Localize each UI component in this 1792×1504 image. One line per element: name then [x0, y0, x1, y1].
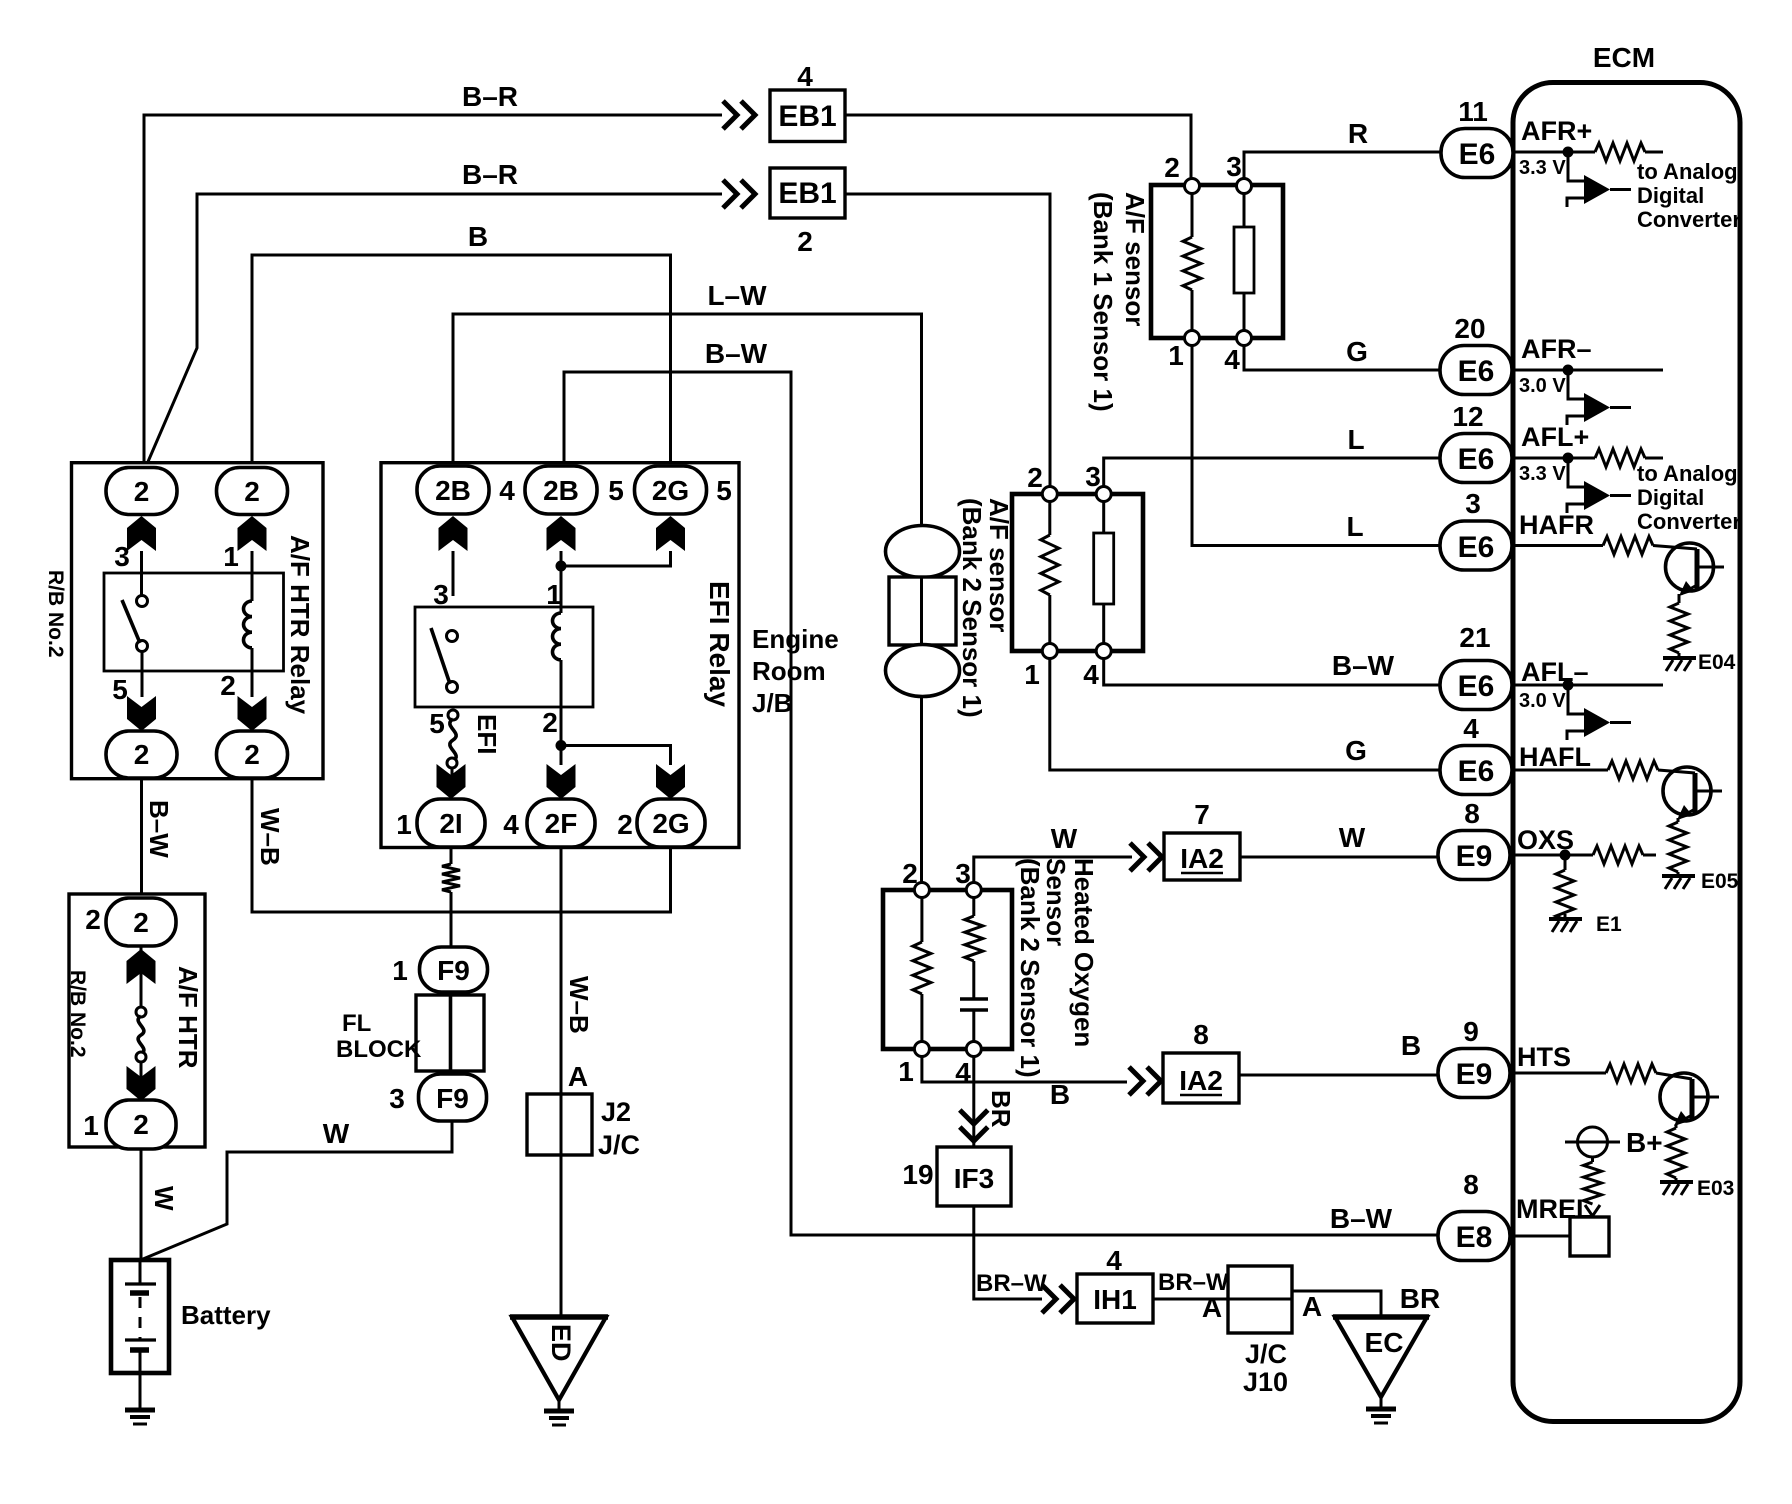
E04 resistor: [1670, 603, 1688, 653]
svg-text:(Bank 2 Sensor 1): (Bank 2 Sensor 1): [1015, 858, 1045, 1078]
connector EB1 (pin 2): [770, 168, 845, 218]
pin oval 2B (pin 5): [525, 466, 597, 514]
HO2S element resistor: [972, 897, 975, 916]
HO2S connector wire through: [920, 577, 923, 645]
connector E6 pin 20: [1440, 346, 1512, 395]
AFR+ amp input jog: [1568, 152, 1584, 181]
pin arrow down: [127, 1066, 156, 1101]
bank2 heater resistor: [1048, 501, 1051, 644]
svg-text:E6: E6: [1458, 443, 1495, 476]
svg-text:B: B: [468, 221, 488, 252]
junction dot: [1560, 850, 1571, 861]
svg-text:EFI Relay: EFI Relay: [704, 581, 735, 707]
svg-text:Converter: Converter: [1637, 509, 1741, 534]
svg-text:2: 2: [902, 858, 918, 889]
wire BR-W from IF3 to IH1: [974, 1206, 1042, 1299]
svg-text:BR: BR: [986, 1090, 1016, 1128]
connector EB1 (pin 4): [770, 90, 845, 142]
HTS resistor: [1606, 1064, 1656, 1082]
svg-text:2G: 2G: [652, 475, 689, 506]
svg-text:E05: E05: [1701, 870, 1739, 893]
OXS stub: [1643, 854, 1656, 857]
svg-text:to Analog: to Analog: [1637, 159, 1738, 184]
svg-text:5: 5: [429, 708, 445, 739]
node 4: [1096, 644, 1111, 659]
svg-text:L: L: [1346, 511, 1363, 542]
svg-text:E03: E03: [1697, 1177, 1734, 1200]
EFI fuse wiggle: [450, 719, 456, 761]
Q2 emitter wire: [1677, 818, 1680, 822]
svg-text:4: 4: [797, 61, 813, 92]
svg-text:(Bank 1 Sensor 1): (Bank 1 Sensor 1): [1088, 192, 1118, 412]
junction dot: [1563, 453, 1574, 464]
wire BR from HO2S pin4 down to IF3: [972, 1056, 975, 1147]
svg-text:BR: BR: [1400, 1283, 1440, 1314]
svg-text:E6: E6: [1458, 755, 1495, 788]
HO2S capacitor plate 1: [960, 997, 988, 1001]
AFL+ amp input jog: [1568, 458, 1584, 487]
svg-text:J/B: J/B: [752, 688, 792, 718]
svg-text:EB1: EB1: [778, 177, 836, 210]
wire connector to HO2S sensor: [920, 696, 923, 883]
svg-text:19: 19: [902, 1159, 933, 1190]
svg-text:A/F sensor: A/F sensor: [1120, 192, 1150, 326]
connector arrows to IH1(4): [1042, 1285, 1074, 1313]
svg-text:AFL–: AFL–: [1521, 657, 1589, 687]
battery plate short top: [130, 1290, 149, 1296]
svg-text:2: 2: [617, 809, 633, 840]
wire: [450, 892, 453, 948]
svg-text:2: 2: [542, 707, 558, 738]
node 1: [914, 1042, 929, 1057]
chassis ground E05: [1662, 876, 1695, 889]
wire to E04 ground: [1678, 653, 1681, 657]
svg-text:W–B: W–B: [564, 976, 594, 1034]
MREL internal wire: [1510, 1235, 1570, 1238]
svg-text:B–W: B–W: [1332, 650, 1395, 681]
svg-text:FL: FL: [342, 1010, 371, 1037]
chassis ground E04: [1663, 658, 1696, 671]
svg-text:2: 2: [244, 739, 260, 770]
junction connector J/C J10: [1228, 1266, 1292, 1333]
relay box A/F HTR Relay (R/B No.2): [72, 463, 324, 779]
connector arrows to EB1(2): [723, 180, 755, 208]
wire W from IA2 to E9 pin 8: [1240, 856, 1444, 859]
relay coil: [553, 613, 562, 660]
connector IF3 (pin 19): [937, 1147, 1011, 1206]
wire coil to junction: [560, 660, 563, 746]
svg-text:2F: 2F: [545, 808, 578, 839]
bank2 element resistor wire: [1102, 501, 1105, 644]
pin oval 2I (pin 1): [417, 799, 485, 847]
svg-text:1: 1: [392, 955, 408, 986]
connector IA2 (pin 8): [1163, 1053, 1239, 1103]
svg-text:R/B No.2: R/B No.2: [66, 970, 89, 1058]
bank2 element resistor box: [1094, 533, 1114, 604]
svg-text:12: 12: [1452, 401, 1483, 432]
svg-text:AFL+: AFL+: [1521, 422, 1589, 452]
wire W from HO2S pin3 to IA2(7): [974, 857, 1132, 883]
pin arrow down 2G: [656, 764, 685, 799]
svg-text:1: 1: [546, 579, 562, 610]
svg-text:3: 3: [955, 858, 971, 889]
svg-text:1: 1: [83, 1110, 99, 1141]
svg-text:A/F sensor: A/F sensor: [984, 498, 1014, 632]
A/F sensor Bank 2 box: [1012, 494, 1143, 651]
HAFL resistor: [1608, 761, 1658, 779]
fuse contact top: [136, 1007, 146, 1017]
svg-text:21: 21: [1459, 622, 1490, 653]
battery ground: [125, 1410, 155, 1424]
fuse contact bottom: [136, 1052, 146, 1062]
wire W-B from relay pin 2 to EFI relay 2G(2) bottom: [252, 778, 671, 912]
AFR+ internal wire: [1513, 151, 1595, 154]
connector E6 pin 3: [1440, 521, 1512, 570]
svg-text:2: 2: [244, 476, 260, 507]
svg-text:E6: E6: [1458, 355, 1495, 388]
svg-text:W: W: [149, 1186, 179, 1211]
fuse F9 (pin 1): [420, 947, 488, 992]
wire B from HO2S pin1 to IA2(8): [922, 1056, 1127, 1082]
svg-text:Converter: Converter: [1637, 207, 1741, 232]
svg-text:1: 1: [1168, 340, 1184, 371]
pin oval 2B (pin 4): [417, 466, 489, 514]
svg-text:L: L: [1347, 424, 1364, 455]
pin arrow up (right): [238, 516, 267, 551]
svg-text:A: A: [568, 1061, 588, 1092]
junction box A/F HTR (R/B No.2): [69, 894, 205, 1147]
node 2: [1042, 487, 1057, 502]
pin oval 2 (top): [106, 898, 176, 946]
chassis ground E03: [1660, 1182, 1693, 1195]
svg-text:8: 8: [1464, 798, 1480, 829]
AFR- amp lower input: [1567, 416, 1584, 425]
svg-text:G: G: [1345, 735, 1367, 766]
Q3 emitter wire: [1675, 1124, 1678, 1128]
svg-text:IA2: IA2: [1180, 843, 1224, 874]
svg-text:EFI: EFI: [472, 714, 502, 754]
HO2S connector grommet top: [886, 526, 960, 578]
svg-text:E1: E1: [1596, 913, 1622, 936]
node 1: [1185, 331, 1200, 346]
svg-text:B: B: [1050, 1079, 1070, 1110]
HAFL wire to transistor: [1658, 770, 1695, 773]
svg-text:W–B: W–B: [255, 808, 285, 866]
op-amp AFL-: [1584, 708, 1610, 737]
svg-text:Engine: Engine: [752, 624, 839, 654]
node 3: [1096, 487, 1111, 502]
wire EB1(4) to A/F sensor bank1 pin 2: [845, 115, 1191, 180]
svg-text:HAFL: HAFL: [1519, 742, 1591, 772]
Q1 emitter wire: [1678, 594, 1681, 603]
wire J2 to ED ground: [560, 1155, 563, 1318]
svg-text:ECM: ECM: [1593, 42, 1655, 73]
svg-text:3: 3: [1465, 488, 1481, 519]
wire B-R to EB1(4) from A/F HTR relay pin 2: [144, 115, 722, 467]
node 2: [1185, 179, 1200, 194]
svg-text:B–W: B–W: [144, 800, 174, 858]
wire R from bank1 pin3 to E6 pin 11: [1244, 152, 1444, 180]
connector arrows to IA2(8): [1129, 1067, 1161, 1095]
AFL+ internal wire: [1513, 457, 1595, 460]
svg-text:F9: F9: [437, 955, 470, 986]
svg-text:to Analog: to Analog: [1637, 461, 1738, 486]
E1 resistor: [1556, 870, 1574, 920]
wire pin3 to switch: [140, 551, 143, 596]
svg-text:2I: 2I: [439, 808, 462, 839]
svg-text:W: W: [323, 1118, 350, 1149]
fusible link wiggle: [138, 1016, 144, 1054]
svg-text:1: 1: [1024, 659, 1040, 690]
battery internal top wire: [139, 1260, 142, 1284]
svg-text:2B: 2B: [435, 475, 471, 506]
junction dot: [1563, 147, 1574, 158]
battery plate long top: [125, 1282, 156, 1285]
AFR- amp output: [1610, 406, 1631, 409]
EC earth ground: [1366, 1409, 1396, 1423]
connector arrows to IA2(7): [1130, 843, 1162, 871]
pin oval 2 (top-right, pin 1): [217, 468, 288, 515]
junction dot on coil wire: [556, 740, 567, 751]
svg-text:4: 4: [1224, 344, 1240, 375]
ground triangle ED: [512, 1317, 606, 1400]
wire 2B5 to coil with branch to 2G5: [560, 551, 563, 613]
fusible link zigzag under 2I: [442, 864, 460, 892]
AFL+ amp lower input: [1567, 504, 1584, 513]
svg-text:E6: E6: [1458, 531, 1495, 564]
AFR- amp input jog: [1568, 370, 1584, 399]
wire battery to ground: [139, 1373, 142, 1408]
svg-text:Digital: Digital: [1637, 485, 1704, 510]
switch contact top: [447, 631, 458, 642]
pin arrow up: [127, 949, 156, 984]
switch blade: [431, 628, 450, 684]
svg-text:20: 20: [1454, 313, 1485, 344]
HAFR internal wire: [1513, 544, 1603, 547]
svg-text:J10: J10: [1243, 1367, 1288, 1397]
svg-text:J/C: J/C: [598, 1130, 640, 1160]
svg-text:9: 9: [1463, 1016, 1479, 1047]
wire coil to pin 2: [251, 648, 254, 697]
wire B from A/F HTR relay pin 1 to EFI relay 2G top: [252, 255, 671, 467]
chassis ground E1: [1549, 919, 1582, 932]
svg-text:B–W: B–W: [1330, 1203, 1393, 1234]
wire L-W from EFI relay 2B(4) to HO2S connector: [453, 314, 922, 528]
switch contact bottom: [447, 682, 458, 693]
connector arrows down to IF3: [960, 1110, 988, 1141]
pin arrow down 2F: [547, 764, 576, 799]
wire B-W from EFI relay 2B(5) to ECM E8 MREL: [564, 372, 1440, 1235]
EFI fuse contact bottom: [447, 758, 457, 768]
pin oval 2G (pin 5): [635, 466, 707, 514]
wire switch to pin 5: [141, 651, 144, 697]
svg-text:A: A: [1302, 1291, 1322, 1322]
E03 resistor: [1667, 1128, 1685, 1178]
switch contact bottom: [137, 641, 148, 652]
junction dot: [1563, 365, 1574, 376]
svg-text:2: 2: [134, 739, 150, 770]
wire 2I to F9(1) with fusible zigzag: [450, 849, 453, 864]
svg-text:F9: F9: [436, 1083, 469, 1114]
svg-text:AFR–: AFR–: [1521, 334, 1592, 364]
svg-text:W: W: [1051, 823, 1078, 854]
relay coil: [244, 601, 253, 648]
battery internal bottom wire: [139, 1350, 142, 1373]
wire EB1(2) to A/F sensor bank2 pin 2: [845, 194, 1050, 488]
svg-text:3.3 V: 3.3 V: [1519, 463, 1566, 485]
pin arrow down (right): [238, 696, 267, 731]
bank1 element resistor box: [1234, 227, 1254, 293]
AFL+ stub: [1645, 457, 1663, 460]
svg-text:R: R: [1348, 118, 1368, 149]
OXS resistor: [1593, 846, 1643, 864]
svg-text:2: 2: [134, 476, 150, 507]
svg-text:2: 2: [133, 907, 149, 938]
connector E6 pin 21: [1440, 661, 1512, 710]
wire W from A/F HTR to battery: [140, 1149, 143, 1262]
svg-text:E8: E8: [1456, 1221, 1493, 1254]
svg-text:5: 5: [608, 475, 624, 506]
transistor Q3 (HTS driver): [1660, 1073, 1708, 1121]
svg-text:L–W: L–W: [707, 280, 767, 311]
wire pin1 to coil: [251, 551, 254, 601]
ground triangle EC: [1335, 1317, 1427, 1397]
svg-text:J/C: J/C: [1245, 1339, 1287, 1369]
wire 2B4 to switch: [452, 551, 455, 596]
svg-text:1: 1: [223, 541, 239, 572]
svg-text:BR–W: BR–W: [976, 1270, 1047, 1297]
svg-text:IF3: IF3: [954, 1163, 994, 1194]
svg-text:BLOCK: BLOCK: [336, 1036, 422, 1063]
J2 wire through: [560, 1094, 563, 1155]
svg-text:1: 1: [898, 1056, 914, 1087]
svg-text:4: 4: [1106, 1245, 1122, 1276]
wire to E1 ground: [1564, 914, 1567, 918]
AFR+ amp lower input: [1567, 198, 1584, 207]
svg-text:E6: E6: [1458, 670, 1495, 703]
FL BLOCK: [416, 995, 484, 1071]
svg-text:3: 3: [433, 579, 449, 610]
svg-text:E6: E6: [1459, 138, 1496, 171]
HTS wire to transistor: [1656, 1073, 1692, 1079]
ECM box: [1513, 83, 1740, 1422]
svg-text:2: 2: [1164, 152, 1180, 183]
MREL coil square: [1570, 1217, 1609, 1256]
A/F sensor Bank 1 box: [1151, 185, 1283, 338]
connector E6 pin 4: [1440, 746, 1512, 795]
svg-text:EC: EC: [1365, 1327, 1404, 1358]
pin oval 2F (pin 4): [527, 799, 595, 847]
wire to E03 ground: [1675, 1178, 1678, 1181]
svg-text:7: 7: [1194, 799, 1210, 830]
wire junction to 2F arrow: [560, 746, 563, 766]
AFL+ resistor: [1595, 449, 1645, 467]
B+ terminal bar: [1565, 1141, 1620, 1144]
E05 resistor: [1669, 822, 1687, 872]
pin arrow up 2B4: [439, 516, 468, 551]
node 4: [1237, 331, 1252, 346]
svg-text:2: 2: [133, 1109, 149, 1140]
connector IH1 (pin 4): [1077, 1274, 1153, 1323]
node 1: [1042, 644, 1057, 659]
wire B from IA2 to E9 pin 9: [1239, 1074, 1444, 1077]
AFL+ amp output: [1610, 494, 1631, 497]
svg-text:3: 3: [1226, 151, 1242, 182]
HO2S connector grommet bottom: [886, 645, 960, 697]
node 2: [914, 883, 929, 898]
svg-text:B+: B+: [1626, 1127, 1663, 1158]
wire G from bank1 pin4 to E6 pin 20: [1244, 344, 1444, 370]
transistor Q1 (HAFR driver): [1666, 543, 1714, 591]
svg-text:MREL: MREL: [1516, 1194, 1593, 1224]
J10 divider: [1228, 1298, 1292, 1301]
op-amp AFR-: [1584, 393, 1610, 422]
connector E6 pin 12: [1440, 434, 1512, 483]
ED earth ground: [544, 1411, 574, 1425]
pin arrow down (left): [127, 696, 156, 731]
svg-text:E9: E9: [1456, 840, 1493, 873]
op-amp AFL+: [1584, 481, 1610, 510]
branch wire to 2G2: [561, 746, 671, 766]
svg-text:AFR+: AFR+: [1521, 116, 1592, 146]
svg-text:2B: 2B: [543, 475, 579, 506]
svg-text:Digital: Digital: [1637, 183, 1704, 208]
HAFR wire to transistor: [1653, 546, 1697, 550]
svg-text:4: 4: [499, 475, 515, 506]
AFR+ stub: [1645, 151, 1663, 154]
HO2S heater resistor: [920, 897, 923, 1042]
AFR+ resistor: [1595, 143, 1645, 161]
HAFL internal wire: [1513, 769, 1608, 772]
svg-text:3.0 V: 3.0 V: [1519, 375, 1566, 397]
branch wire to 2G5: [561, 551, 671, 566]
svg-text:5: 5: [112, 674, 128, 705]
HO2S cap wires: [972, 961, 975, 1044]
svg-text:A/F HTR: A/F HTR: [173, 966, 203, 1069]
switch contact top: [137, 596, 148, 607]
svg-text:Battery: Battery: [181, 1300, 271, 1330]
bank1 element resistor wire: [1243, 193, 1246, 331]
svg-text:4: 4: [1463, 713, 1479, 744]
svg-text:A/F HTR Relay: A/F HTR Relay: [285, 535, 315, 715]
wire BR-W from IH1 to J10: [1153, 1298, 1228, 1301]
pin arrow up 2B5: [547, 516, 576, 551]
pin oval 2 (bottom): [106, 1100, 176, 1149]
wire L from bank1 pin1 to E6 pin 3 (HAFR): [1192, 344, 1444, 546]
svg-text:2: 2: [1027, 462, 1043, 493]
battery plate long bottom: [125, 1338, 156, 1341]
relay inner box: [104, 573, 284, 671]
battery plate short bottom: [130, 1347, 149, 1353]
svg-text:ED: ED: [546, 1324, 576, 1362]
wire to bottom pin: [140, 1062, 143, 1101]
B+ wire: [1591, 1157, 1594, 1162]
svg-text:2: 2: [797, 226, 813, 257]
svg-text:E04: E04: [1698, 651, 1736, 674]
op-amp AFR+: [1584, 175, 1610, 204]
wire J10 to EC ground: [1292, 1291, 1381, 1318]
HO2S capacitor plate 2: [960, 1008, 988, 1012]
svg-text:3.0 V: 3.0 V: [1519, 690, 1566, 712]
B+ terminal circle: [1578, 1127, 1608, 1157]
node 3: [1237, 179, 1252, 194]
wire B-W relay to lower junction box: [140, 778, 143, 896]
IA2 underline: [1180, 1094, 1222, 1097]
svg-text:1: 1: [396, 809, 412, 840]
wire to E1 resistor: [1564, 855, 1567, 870]
pin oval 2 (bottom-left, pin 5): [106, 731, 177, 778]
junction connector J2 J/C: [527, 1094, 592, 1155]
